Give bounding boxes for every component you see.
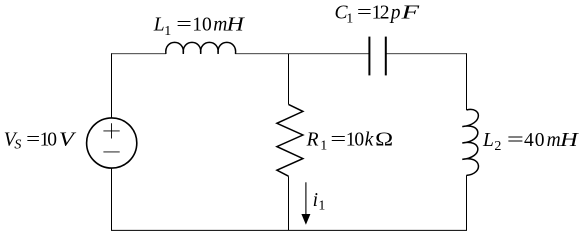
VS minus sign <box>103 151 119 153</box>
label C1=12pF <box>335 3 421 27</box>
label VS=10V <box>4 129 77 152</box>
current arrow i1 <box>301 182 310 225</box>
svg-text:L1=10mH: L1=10mH <box>153 15 245 39</box>
svg-text:L2=40mH: L2=40mH <box>482 130 579 154</box>
resistor R1 (vertical zigzag) <box>277 104 303 176</box>
label L1=10mH <box>153 15 245 39</box>
capacitor C1 plates <box>369 37 385 76</box>
VS plus sign <box>103 123 119 138</box>
svg-text:i1: i1 <box>313 190 326 214</box>
inductor L1 (4 bumps, horizontal) <box>166 42 236 53</box>
wire left vertical upper (top-left corner to VS top) <box>111 53 113 118</box>
svg-text:VS=10V: VS=10V <box>4 129 77 152</box>
wire top middle (L1 to C1 left plate, through node A) <box>235 53 369 55</box>
wire top-left horizontal (left node to L1) <box>112 53 166 55</box>
wire left vertical lower (VS bottom to bottom-left corner) <box>111 168 113 230</box>
wire right vertical upper (top-right corner to L2 top) <box>466 53 468 110</box>
label R1=10kΩ <box>306 130 394 154</box>
label L2=40mH <box>482 130 579 154</box>
label i1 <box>313 190 326 214</box>
inductor L2 (4 bumps, vertical, bulge right) <box>462 109 478 175</box>
voltage source VS (circle) <box>87 118 137 168</box>
wire right vertical lower (L2 bottom to bottom-right corner) <box>466 175 468 230</box>
svg-text:R1=10kΩ: R1=10kΩ <box>306 130 394 154</box>
svg-text:C1=12pF: C1=12pF <box>335 3 421 27</box>
wire top-right (C1 right plate to top-right corner) <box>386 53 467 55</box>
wire middle vertical upper (node A to R1 top) <box>288 54 290 105</box>
wire middle vertical lower (R1 bottom to bottom wire) <box>288 176 290 230</box>
wire bottom horizontal <box>111 229 467 231</box>
